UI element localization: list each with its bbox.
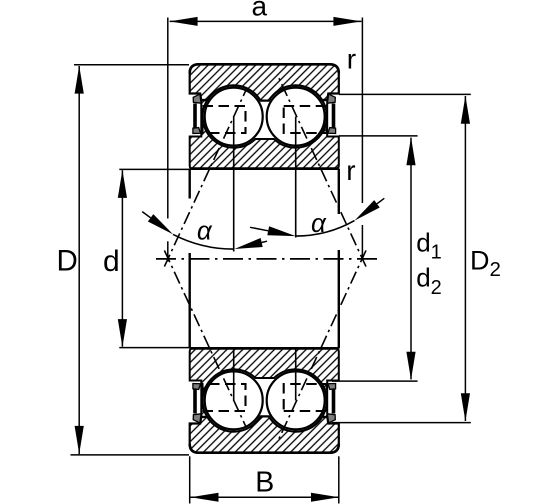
left alpha arrow at contact line bbox=[148, 214, 173, 234]
contact line upper-left bbox=[164, 89, 246, 266]
ball right (bottom) bbox=[267, 371, 325, 429]
outer ring (bottom) bbox=[190, 416, 339, 452]
svg-text:α: α bbox=[311, 208, 327, 238]
dimension B extension right bbox=[338, 456, 340, 503]
dimension d1/d2 line bbox=[410, 138, 412, 380]
bore line (bottom) bbox=[191, 347, 338, 350]
bore line (top) bbox=[191, 167, 338, 170]
vertical reference line bottom-right ball bbox=[295, 349, 297, 400]
svg-text:B: B bbox=[255, 467, 274, 499]
dimension D2 extension bottom bbox=[332, 422, 471, 424]
left contact angle arc bbox=[173, 234, 234, 249]
seal left (bottom) bbox=[193, 414, 201, 423]
inner ring (top) bbox=[190, 100, 339, 168]
seal right (bottom) bbox=[327, 414, 335, 423]
vertical reference line bottom-left ball bbox=[233, 349, 235, 400]
cage pocket left (dashed) (bottom) bbox=[203, 384, 246, 411]
svg-text:D: D bbox=[57, 245, 78, 278]
outer ring outer edge (bottom) bbox=[190, 444, 339, 453]
dimension d1/d2 extension bottom bbox=[332, 380, 418, 382]
dimension d extension bottom bbox=[119, 347, 190, 349]
svg-text:a: a bbox=[252, 0, 268, 21]
dimension a extension line left (upper) bbox=[167, 18, 169, 219]
ball left (top) bbox=[205, 88, 263, 146]
left face line (between sections) bbox=[188, 169, 190, 199]
ball right (top) bbox=[267, 88, 325, 146]
dimension D extension top bbox=[74, 64, 189, 66]
cage pocket right (dashed) (top) bbox=[284, 106, 327, 133]
top bearing cross-section bbox=[190, 64, 339, 168]
ball left (bottom) bbox=[205, 371, 263, 429]
right alpha arrow at contact line bbox=[355, 200, 380, 221]
dimension B extension left bbox=[189, 456, 191, 503]
svg-text:r: r bbox=[347, 44, 356, 75]
bottom bearing cross-section (mirrored) bbox=[190, 348, 339, 452]
inner ring (bottom) bbox=[190, 348, 339, 416]
svg-text:r: r bbox=[346, 155, 355, 186]
contact line upper-right bbox=[277, 74, 366, 266]
seal left (top) bbox=[193, 94, 201, 103]
dimension a extension line right (lower) bbox=[361, 225, 363, 259]
dimension d line bbox=[121, 170, 123, 347]
axis center line bbox=[156, 258, 379, 260]
contact line lower-right bbox=[277, 250, 366, 442]
dimension d extension top bbox=[119, 168, 190, 170]
cage pocket left (dashed) (top) bbox=[203, 106, 246, 133]
dimension a line bbox=[170, 20, 362, 22]
right alpha arrow at vertical line bbox=[267, 226, 295, 236]
outer ring (top) bbox=[190, 64, 339, 100]
svg-text:d: d bbox=[103, 245, 120, 278]
contact line lower-left bbox=[164, 250, 246, 427]
right contact angle arc bbox=[296, 221, 355, 237]
dimension D2 extension top bbox=[339, 93, 471, 95]
dimension B line bbox=[191, 496, 340, 498]
dimension a extension line right (upper) bbox=[361, 18, 363, 204]
vertical reference line top-right ball bbox=[295, 117, 297, 238]
vertical reference line top-left ball bbox=[233, 117, 235, 252]
dimension D2 line bbox=[464, 96, 466, 421]
outer ring outer edge (top) bbox=[190, 64, 339, 73]
dimension a extension line left (lower) bbox=[167, 241, 169, 261]
dimension d1/d2 extension top bbox=[339, 135, 418, 137]
dimension D extension bottom bbox=[71, 454, 190, 456]
cage pocket right (dashed) (bottom) bbox=[284, 384, 327, 411]
left alpha arrow at vertical line bbox=[234, 238, 262, 249]
seal right (top) bbox=[327, 94, 335, 103]
dimension D line bbox=[78, 66, 80, 454]
svg-text:α: α bbox=[197, 215, 213, 245]
right face line (between sections) bbox=[338, 169, 340, 214]
